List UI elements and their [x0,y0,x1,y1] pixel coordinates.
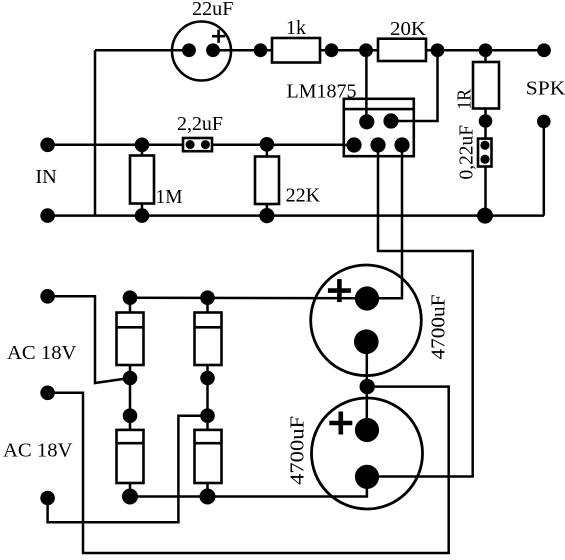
svg-text:LM1875: LM1875 [287,80,357,102]
svg-text:AC 18V: AC 18V [3,440,73,462]
pin LM1875 pin3 [370,137,385,152]
node AC terminal 3 [40,491,55,506]
resistor 22K [255,157,279,205]
wire pin stubs inside LM1875 [343,98,416,158]
wire ground rail [48,214,544,217]
pin LM1875 pin5 [394,137,409,152]
node AC terminal 1 [40,289,55,304]
diode D3 [117,430,144,483]
node AC terminal 2 [40,386,55,401]
node zobel ground [477,208,493,224]
capacitor 22uF polarity plus [212,30,225,43]
node D4 top junction [200,408,215,423]
wire AC centre tap route [48,387,449,553]
node 22uF right plate [206,43,220,57]
capacitor 0,22uF body [478,139,492,167]
node IN plus terminal [40,138,55,153]
node centre tap junction [360,379,375,394]
svg-text:20K: 20K [390,18,426,40]
svg-text:1k: 1k [286,17,307,39]
node 1R bottom [479,114,493,128]
svg-text:22uF: 22uF [192,0,234,20]
resistor 1k [272,38,320,63]
node right of 1k [325,43,339,57]
svg-text:AC 18V: AC 18V [7,342,77,364]
capacitor 22uF body [172,22,231,81]
node 2,2uF right plate [201,140,210,149]
svg-text:4700uF: 4700uF [287,416,309,485]
resistor 1R [473,62,499,109]
node 0,22uF bottom plate [480,155,489,164]
node 0,22uF top plate [480,141,489,150]
node 1M top [135,138,150,153]
wire SPK negative vertical [543,121,546,215]
node D3 bottom [122,489,138,505]
node cap C4 positive [355,418,379,442]
wire bridge top rail to cap1 positive [130,296,365,299]
node SPK minus [537,115,551,129]
wire centre link cap1 negative to cap2 positive [366,342,369,430]
svg-text:1R: 1R [454,89,476,110]
wire bridge bottom rail to cap2 negative [130,477,367,497]
node D1 bottom junction [123,371,138,386]
wire inverting input from rail to IC pin [365,50,368,122]
diode D2 [195,313,222,366]
wire AC winding 1 top terminal to bridge left mid [48,296,130,383]
wire bridge right column [206,298,209,497]
resistor 1M [130,156,154,204]
node SPK plus [537,43,551,57]
node output junction [431,43,445,57]
svg-text:0,22uF: 0,22uF [456,125,478,180]
node D2 bottom junction [200,371,215,386]
svg-text:1M: 1M [156,186,183,208]
capacitor C4 4700uF body [312,398,423,509]
wire IN+ row [48,144,190,147]
wire V+ route from IC pin to cap1 positive [366,145,402,298]
pin LM1875 pin4 [383,113,398,128]
node D2 top [200,290,215,305]
pin LM1875 pin2 [346,137,361,152]
node cap C3 positive [355,286,379,310]
node IN minus terminal [40,208,55,223]
capacitor C3 4700uF body [311,265,422,376]
node 22K bottom [259,208,274,223]
svg-text:IN: IN [35,166,57,188]
svg-text:22K: 22K [286,185,321,207]
node 1R top [479,43,493,57]
resistor 20K [378,39,426,61]
diode D1 [117,313,144,366]
diode D4 [195,430,222,483]
wire 22K vertical [266,145,269,216]
wire bridge left column [129,298,132,497]
node left of 1k [254,43,268,57]
node 22K top junction [260,137,275,152]
pin LM1875 pin1 [359,114,374,129]
capacitor 2,2uF body [183,138,212,151]
svg-text:SPK: SPK [526,77,565,99]
capacitor C4 polarity plus [329,412,352,435]
node feedback junction [359,43,373,57]
svg-text:4700uF: 4700uF [428,295,450,360]
wire top rail left of 22uF [95,49,189,52]
wire 1R / zobel vertical [484,50,487,215]
node 22uF left plate [182,43,196,57]
wire V- route from IC pin to cap2 negative [367,145,473,477]
node 2,2uF left plate [186,140,195,149]
wire top rail 22uF to end [213,49,544,52]
capacitor C3 polarity plus [328,279,351,302]
wire IC output to 20K right [391,50,438,121]
node D1 top [123,290,138,305]
wire left vertical from 22uF to ground rail [94,50,97,215]
wire IN+ row right part [205,144,355,147]
node D4 bottom [200,489,216,505]
node 1M bottom [135,208,150,223]
node D3 top junction [123,408,138,423]
svg-text:2,2uF: 2,2uF [177,113,223,135]
wire AC winding 2 bottom terminal to bridge right mid [48,416,208,523]
op-amp IC LM1875 body [344,99,414,156]
node cap C4 negative [355,465,379,489]
node cap C3 negative [354,329,379,354]
wire 1M vertical [141,145,144,216]
